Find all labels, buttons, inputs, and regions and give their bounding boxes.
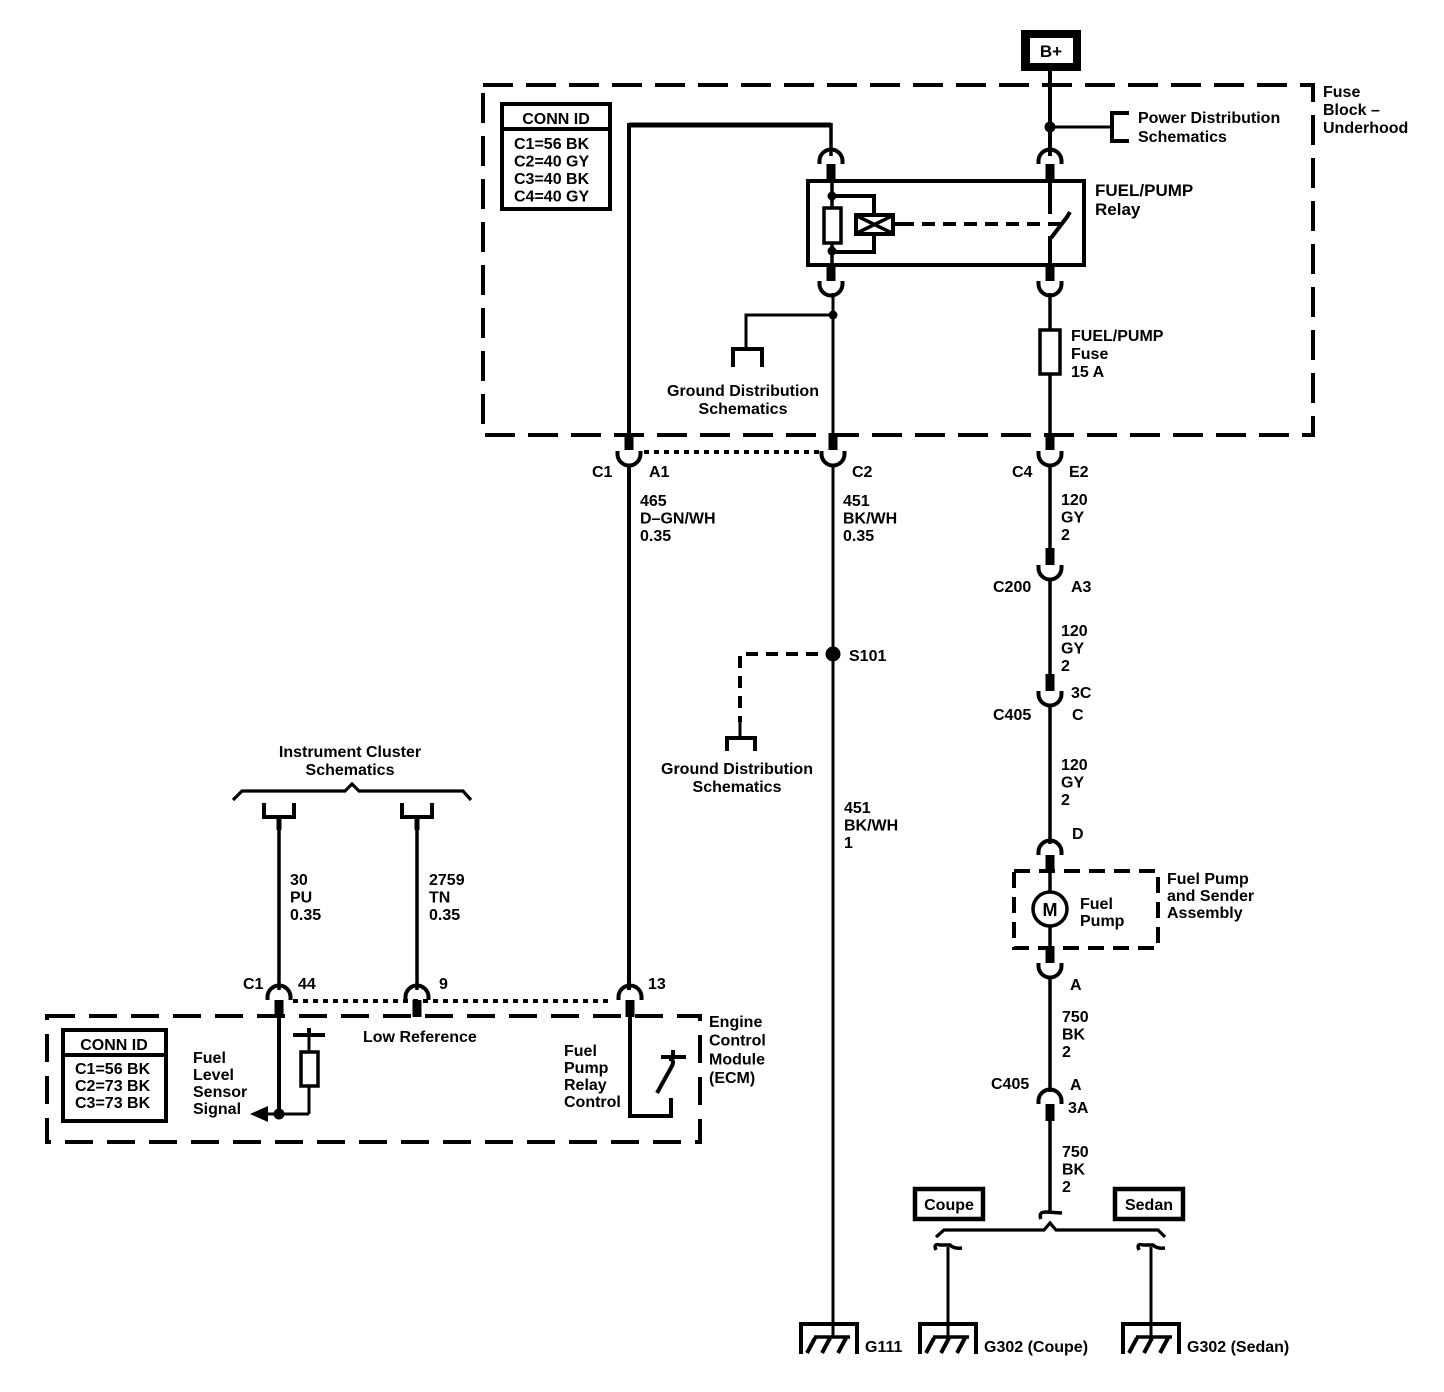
terminal stub cluster low reference xyxy=(415,817,420,830)
svg-text:FuelPumpRelayControl: FuelPumpRelayControl xyxy=(564,1043,621,1111)
terminal stub fuel pump pin A xyxy=(1046,946,1055,963)
terminal stub relay switch bottom xyxy=(1046,264,1055,281)
svg-text:FUEL/PUMPRelay: FUEL/PUMPRelay xyxy=(1095,181,1193,219)
connector arc relay switch bottom xyxy=(1039,281,1062,296)
svg-text:C2: C2 xyxy=(852,464,873,481)
connector arc relay coil bottom xyxy=(820,281,843,296)
svg-text:13: 13 xyxy=(648,976,666,993)
wire tap to power distribution pointer xyxy=(1050,126,1112,129)
wire S101 dashed tap to ground distribution xyxy=(740,654,818,722)
svg-text:C405: C405 xyxy=(991,1076,1029,1093)
wire 120 GY segment 1 xyxy=(1048,464,1052,551)
relay switch fixed contact wire (top) xyxy=(1048,181,1052,214)
svg-text:B+: B+ xyxy=(1040,42,1062,61)
relay coil resistor element xyxy=(824,208,841,243)
wire fuel level sensor signal inside ECM xyxy=(277,1016,281,1114)
wire sensor junction horizontal xyxy=(266,1113,309,1116)
terminal stub cluster fuel gauge xyxy=(277,817,282,830)
svg-text:D: D xyxy=(1072,826,1084,843)
wire fuse to fuse block exit xyxy=(1048,374,1052,435)
terminal stub C405 pin 3A xyxy=(1046,1104,1055,1121)
svg-text:G302 (Coupe): G302 (Coupe) xyxy=(984,1339,1088,1356)
wire ground distribution tap horizontal xyxy=(746,315,833,347)
wire relay switch to fuse xyxy=(1048,293,1052,330)
terminal stub ECM pin 13 xyxy=(626,1000,635,1017)
wire 750 BK segment 2 xyxy=(1048,1121,1052,1212)
dotted connector line C1-C2 xyxy=(644,450,820,454)
wire pump ground inside box xyxy=(1048,926,1052,948)
wire left branch vertical (465 inside fuse block) xyxy=(627,123,631,435)
svg-text:Fuel Pumpand SenderAssembly: Fuel Pumpand SenderAssembly xyxy=(1167,871,1254,922)
wire G302 sedan drop xyxy=(1150,1247,1153,1338)
svg-text:E2: E2 xyxy=(1069,464,1089,481)
terminal stub C1 exit xyxy=(625,433,634,450)
svg-text:G302 (Sedan): G302 (Sedan) xyxy=(1187,1339,1289,1356)
terminal stub C4 exit xyxy=(1046,433,1055,450)
svg-text:C405: C405 xyxy=(993,707,1031,724)
svg-text:Instrument ClusterSchematics: Instrument ClusterSchematics xyxy=(279,744,421,779)
svg-text:44: 44 xyxy=(298,976,316,993)
wire B+ feed vertical xyxy=(1048,71,1052,156)
relay K box FUEL/PUMP Relay xyxy=(808,181,1084,265)
B+ battery feed terminal xyxy=(1021,30,1081,71)
node power distribution tap xyxy=(1045,122,1056,133)
terminal stub relay coil top xyxy=(827,164,836,181)
wire resistor branch upper xyxy=(308,1035,311,1052)
ground G302 (Coupe) xyxy=(918,1322,978,1354)
pointer bracket Ground Distribution (S101) xyxy=(727,738,755,751)
Fuel Pump and Sender Assembly dashed box xyxy=(1014,871,1158,948)
svg-text:C1=56 BKC2=73 BKC3=73 BK: C1=56 BKC2=73 BKC3=73 BK xyxy=(75,1061,151,1112)
connector arc C405 pin A/3A xyxy=(1039,1090,1062,1105)
terminal stub C2 exit xyxy=(829,433,838,450)
svg-text:C1: C1 xyxy=(243,976,264,993)
wire coil feed from CONN area: horizontal + drop xyxy=(629,123,831,128)
svg-text:750BK2: 750BK2 xyxy=(1062,1009,1089,1061)
svg-text:3A: 3A xyxy=(1068,1100,1089,1117)
Fuse Block - Underhood dashed box xyxy=(483,85,1313,435)
node S101 splice xyxy=(826,647,841,662)
svg-text:Power DistributionSchematics: Power DistributionSchematics xyxy=(1138,110,1280,146)
wire resistor branch lower xyxy=(308,1086,311,1114)
wire 120 GY segment 3 xyxy=(1048,705,1052,844)
wire stub above ground distribution bracket xyxy=(739,720,742,738)
terminal stub relay coil bottom xyxy=(827,264,836,281)
arrow fuel level sensor signal xyxy=(250,1106,268,1122)
Coupe tag box xyxy=(915,1189,983,1219)
node relay coil bottom junction xyxy=(828,247,837,256)
ground G111 xyxy=(799,1322,859,1354)
terminal bracket cluster low reference xyxy=(402,803,432,817)
Sedan tag box xyxy=(1115,1189,1183,1219)
connector arc C4 pin E2 xyxy=(1039,451,1062,466)
svg-text:C: C xyxy=(1072,707,1084,724)
svg-text:A: A xyxy=(1070,977,1082,994)
internal connection T-bar (sensor branch) xyxy=(293,1028,325,1035)
ECM driver T-bar xyxy=(661,1050,686,1057)
svg-text:FuelPump: FuelPump xyxy=(1080,896,1125,930)
svg-text:A: A xyxy=(1070,1077,1082,1094)
svg-text:A3: A3 xyxy=(1071,579,1092,596)
wire fuel pump relay control L-path xyxy=(630,1016,671,1116)
svg-text:3C: 3C xyxy=(1071,685,1092,702)
terminal stub ECM pin 44 xyxy=(275,1000,284,1017)
svg-text:EngineControlModule(ECM): EngineControlModule(ECM) xyxy=(709,1014,766,1087)
svg-text:S101: S101 xyxy=(849,648,886,665)
svg-text:CONN ID: CONN ID xyxy=(522,111,590,128)
relay switch lower contact wire xyxy=(1048,236,1052,265)
wire squiggle G302 sedan branch xyxy=(1138,1245,1165,1250)
CONN ID table (ECM) xyxy=(63,1030,166,1121)
connector arc C1 pin A1 xyxy=(618,451,641,466)
relay actuation dashed link xyxy=(901,222,1061,226)
wire pump feed inside box xyxy=(1048,871,1052,893)
brace coupe/sedan split xyxy=(936,1223,1165,1237)
CONN ID table (fuse block) xyxy=(502,104,610,209)
svg-text:30PU0.35: 30PU0.35 xyxy=(290,872,321,924)
relay coil wire bottom segment xyxy=(830,243,834,265)
svg-text:FuseBlock –Underhood: FuseBlock –Underhood xyxy=(1323,84,1408,137)
wire end squiggle above brace xyxy=(1040,1212,1062,1219)
svg-text:Coupe: Coupe xyxy=(924,1197,974,1214)
terminal stub C405 top xyxy=(1046,674,1055,691)
wire 451 BK/WH (C2 to G111) xyxy=(832,464,835,1338)
terminal stub C200 top xyxy=(1046,548,1055,565)
fuse F FUEL/PUMP 15A element xyxy=(1040,330,1060,374)
svg-text:G111: G111 xyxy=(865,1339,902,1356)
svg-text:FuelLevelSensorSignal: FuelLevelSensorSignal xyxy=(193,1050,247,1118)
wire 750 BK segment 1 xyxy=(1048,977,1052,1092)
svg-text:CONN ID: CONN ID xyxy=(80,1037,148,1054)
svg-text:Ground DistributionSchematics: Ground DistributionSchematics xyxy=(667,383,819,418)
relay coil wire top segment xyxy=(830,181,834,208)
ECM driver switch blade xyxy=(657,1059,673,1093)
connector arc ECM pin 9 xyxy=(406,986,429,1001)
svg-text:C4: C4 xyxy=(1012,464,1033,481)
node fuel level sensor junction xyxy=(274,1109,285,1120)
relay solenoid crossed box xyxy=(856,215,901,234)
brace instrument cluster xyxy=(233,784,471,800)
svg-text:C200: C200 xyxy=(993,579,1031,596)
svg-text:120GY2: 120GY2 xyxy=(1061,757,1088,809)
connector arc C405 pin C xyxy=(1039,691,1062,706)
svg-text:Sedan: Sedan xyxy=(1125,1197,1173,1214)
svg-text:2759TN0.35: 2759TN0.35 xyxy=(429,872,465,924)
svg-text:451BK/WH0.35: 451BK/WH0.35 xyxy=(843,493,897,545)
svg-text:9: 9 xyxy=(439,976,448,993)
dotted connector line ECM C1 xyxy=(293,999,612,1003)
connector arc relay switch terminal (top) xyxy=(1039,150,1062,165)
svg-text:Ground DistributionSchematics: Ground DistributionSchematics xyxy=(661,761,813,796)
connector arc relay coil terminal (top) xyxy=(820,150,843,165)
connector arc C2 xyxy=(822,451,845,466)
wire relay coil branch to solenoid (bottom) xyxy=(832,234,874,252)
connector arc ECM pin 44 xyxy=(268,986,291,1001)
node relay coil top junction xyxy=(828,192,837,201)
svg-text:Low Reference: Low Reference xyxy=(363,1029,477,1046)
motor M fuel pump xyxy=(1033,892,1067,926)
wire 120 GY segment 2 xyxy=(1048,579,1052,677)
wire squiggle G302 coupe branch xyxy=(935,1245,962,1250)
node ground distribution tap xyxy=(829,311,838,320)
svg-text:465D–GN/WH0.35: 465D–GN/WH0.35 xyxy=(640,493,716,545)
wire 465 D-GN/WH (C1 A1 to ECM 13) xyxy=(627,464,631,990)
wire 30 PU cluster drop xyxy=(277,817,281,990)
connector arc C200 pin A3 xyxy=(1039,565,1062,580)
wire relay coil branch to solenoid (top) xyxy=(832,196,874,215)
svg-text:A1: A1 xyxy=(649,464,670,481)
terminal stub fuel pump pin D xyxy=(1046,855,1055,872)
terminal bracket cluster fuel gauge xyxy=(264,803,294,817)
wire G302 coupe drop xyxy=(947,1247,950,1338)
connector arc ECM pin 13 xyxy=(619,986,642,1001)
terminal stub ECM pin 9 xyxy=(413,1000,422,1017)
ground G302 (Sedan) xyxy=(1121,1322,1181,1354)
wire 2759 TN cluster drop xyxy=(415,817,419,990)
pointer bracket Power Distribution xyxy=(1112,113,1129,141)
svg-text:C1: C1 xyxy=(592,464,613,481)
terminal stub relay switch top xyxy=(1046,164,1055,181)
svg-text:FUEL/PUMPFuse15 A: FUEL/PUMPFuse15 A xyxy=(1071,328,1164,381)
svg-text:451BK/WH1: 451BK/WH1 xyxy=(844,800,898,852)
relay switch blade xyxy=(1051,212,1070,238)
pointer bracket Ground Distribution (fuse block) xyxy=(733,349,762,367)
wire relay coil ground drop (451 inside fuse block) xyxy=(832,293,835,435)
resistor ECM pull-up xyxy=(301,1052,318,1086)
svg-text:C1=56 BKC2=40 GYC3=40 BKC4=40: C1=56 BKC2=40 GYC3=40 BKC4=40 GY xyxy=(514,136,590,206)
connector arc fuel pump pin D xyxy=(1039,841,1062,856)
svg-text:750BK2: 750BK2 xyxy=(1062,1144,1089,1196)
svg-text:M: M xyxy=(1043,900,1058,920)
svg-text:120GY2: 120GY2 xyxy=(1061,492,1088,544)
Engine Control Module dashed box xyxy=(47,1016,700,1142)
svg-text:120GY2: 120GY2 xyxy=(1061,623,1088,675)
connector arc fuel pump pin A xyxy=(1039,963,1062,978)
